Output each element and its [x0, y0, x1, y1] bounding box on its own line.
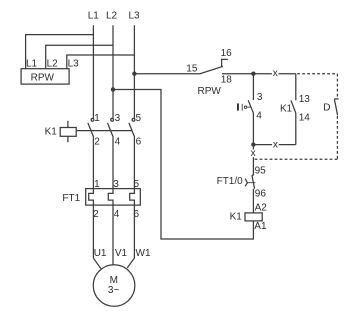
wire to coil	[252, 189, 254, 213]
svg-text:3: 3	[113, 179, 119, 190]
svg-text:D: D	[323, 102, 330, 113]
wire RPW branch L1	[26, 35, 94, 69]
svg-text:5: 5	[134, 179, 140, 190]
contact K1 pole1 seat	[91, 118, 94, 121]
button I plunger	[241, 104, 243, 111]
wire L2 vertical	[112, 25, 114, 118]
svg-text:L3: L3	[129, 11, 141, 22]
svg-text:RPW: RPW	[198, 86, 222, 97]
wire phase1 with FT1 heater	[89, 137, 101, 268]
svg-text:L1: L1	[88, 11, 100, 22]
svg-text:L3: L3	[68, 58, 80, 69]
node junction 18	[252, 72, 255, 75]
svg-text:16: 16	[221, 48, 233, 59]
node junction L2-return	[111, 88, 114, 91]
contact K1 pole3 blade	[129, 123, 135, 137]
svg-text:4: 4	[256, 111, 262, 122]
wire RPW branch L3	[67, 55, 135, 69]
RPW changeover blade	[199, 66, 223, 74]
wire down to FT1/0	[252, 145, 254, 175]
dashed link bottom	[254, 158, 337, 160]
svg-text:A1: A1	[254, 221, 267, 232]
wire phase3 with FT1 heater	[127, 137, 134, 268]
svg-text:6: 6	[134, 209, 140, 220]
dashed link right upper	[336, 74, 338, 98]
svg-text:FT1: FT1	[62, 193, 80, 204]
svg-text:FT1/0: FT1/0	[217, 176, 244, 187]
svg-text:2: 2	[94, 137, 100, 148]
svg-text:1: 1	[94, 113, 100, 124]
wire bottom rung	[253, 144, 295, 146]
svg-text:13: 13	[299, 94, 311, 105]
svg-text:L1: L1	[26, 58, 38, 69]
wire branch I top	[252, 74, 254, 100]
wire branch K1 bottom	[295, 113, 297, 145]
wire coil return	[113, 90, 253, 240]
relay RPW box	[21, 69, 69, 84]
svg-text:x: x	[251, 148, 256, 159]
contact K1 pole1 blade	[88, 123, 94, 137]
contact D blade	[334, 99, 337, 115]
wire branch K1 top	[295, 74, 297, 101]
svg-text:15: 15	[186, 64, 198, 75]
contact K1 aux blade	[291, 100, 296, 113]
svg-text:U1: U1	[94, 248, 107, 259]
contact K1 pole2 blade	[108, 123, 114, 137]
FT1/0 link	[247, 182, 255, 184]
svg-text:4: 4	[114, 209, 120, 220]
wire L1 vertical	[92, 25, 94, 118]
svg-text:3: 3	[257, 92, 263, 103]
dashed link top	[297, 73, 337, 75]
svg-text:x: x	[273, 68, 278, 79]
svg-text:L2: L2	[106, 11, 118, 22]
svg-text:V1: V1	[115, 248, 128, 259]
svg-text:2: 2	[93, 209, 99, 220]
dashed link right lower	[336, 116, 338, 159]
svg-text:K1: K1	[45, 127, 58, 138]
svg-text:18: 18	[221, 75, 233, 86]
x mark bottom rung	[272, 139, 279, 150]
coil K1 box	[245, 213, 262, 221]
wire branch I bottom	[252, 113, 254, 145]
overload FT1 box	[86, 189, 141, 206]
contact K1 pole3 seat	[132, 118, 135, 121]
RPW contact terminal 16 hook	[222, 59, 228, 66]
svg-text:3~: 3~	[108, 285, 120, 296]
svg-text:96: 96	[255, 188, 267, 199]
FT1/0 contact seat	[252, 174, 254, 176]
wire 18	[222, 73, 296, 75]
svg-text:14: 14	[299, 112, 311, 123]
svg-text:5: 5	[136, 113, 142, 124]
svg-text:3: 3	[115, 113, 121, 124]
wire control feed	[134, 73, 199, 75]
x mark on vertical	[250, 148, 257, 159]
button I label bar	[237, 103, 239, 110]
wire RPW branch L2	[46, 45, 113, 68]
K1 mechanical link	[76, 130, 132, 132]
svg-text:x: x	[273, 139, 278, 150]
contact K1 pole2 seat	[111, 118, 114, 121]
svg-text:A2: A2	[255, 203, 268, 214]
button I link	[247, 106, 252, 108]
svg-text:4: 4	[115, 137, 121, 148]
node junction L3-control	[133, 72, 136, 75]
FT1/0 trip chevron	[245, 179, 247, 187]
node junction rung	[252, 143, 255, 146]
x mark top wire	[272, 68, 279, 79]
svg-text:K1: K1	[230, 212, 243, 223]
contact I blade	[248, 100, 253, 113]
svg-text:RPW: RPW	[31, 73, 55, 84]
button I head circle	[244, 106, 246, 108]
svg-text:6: 6	[136, 137, 142, 148]
svg-text:L2: L2	[47, 58, 59, 69]
svg-text:1: 1	[94, 179, 100, 190]
contactor K1 coil symbol	[60, 128, 76, 137]
svg-text:W1: W1	[136, 248, 151, 259]
wire L3 vertical	[133, 25, 135, 118]
motor M circle	[93, 265, 135, 307]
wire phase2 with FT1 heater	[108, 137, 113, 264]
contact D seat	[334, 98, 338, 100]
svg-text:95: 95	[255, 166, 267, 177]
FT1/0 contact blade	[252, 175, 255, 189]
svg-text:K1: K1	[280, 104, 293, 115]
